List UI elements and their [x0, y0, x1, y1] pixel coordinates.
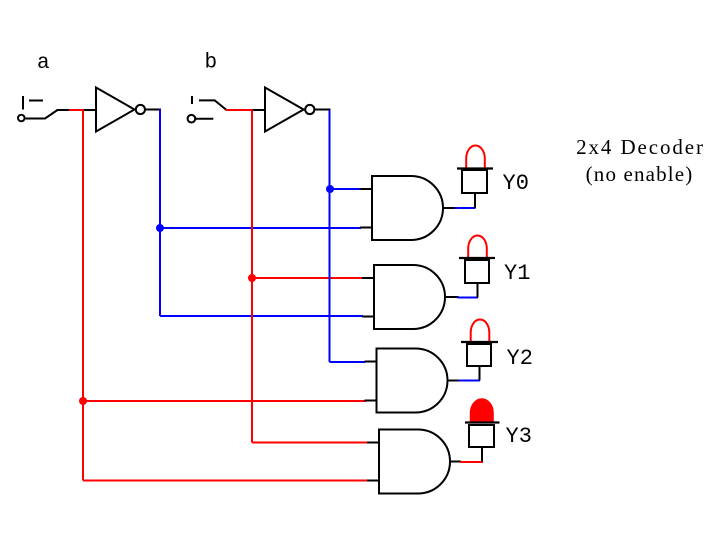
wire net-nota to AND1 lower input [160, 315, 363, 317]
svg-text:Y0: Y0 [503, 171, 529, 196]
svg-text:(no enable): (no enable) [586, 162, 694, 186]
svg-text:b: b [205, 52, 218, 75]
wire net-b to AND1 upper input [252, 277, 363, 279]
wire net-notb to AND2 upper input [330, 361, 366, 363]
svg-text:2x4 Decoder: 2x4 Decoder [576, 135, 705, 159]
svg-text:Y3: Y3 [506, 424, 532, 449]
wire net-a vertical (red, x=83) [82, 109, 84, 481]
LED Y2 [461, 320, 498, 381]
node net-b junction dot [248, 274, 256, 282]
inverter U2 (b) [265, 88, 331, 132]
svg-text:Y2: Y2 [507, 346, 533, 371]
node net-notb junction dot [326, 185, 334, 193]
wire net-a to AND3 lower input [83, 480, 369, 482]
AND gate G0 [372, 176, 443, 240]
switch SWa [18, 96, 58, 121]
wire net-b to AND3 upper input [252, 442, 368, 444]
svg-text:Y1: Y1 [504, 261, 530, 286]
node net-a junction dot [79, 397, 87, 405]
AND gate G1 [374, 265, 445, 329]
switch SWb [188, 96, 227, 122]
node net-nota junction dot [156, 224, 164, 232]
wire switch-b to inverter U2 input [253, 109, 266, 111]
wire net-notb to AND0 upper input [330, 188, 361, 190]
wire AND0 output [443, 207, 456, 209]
wire net-b red segment [226, 109, 253, 111]
wire net-a to AND2 lower input [83, 400, 366, 402]
LED Y3 (lit) [465, 399, 500, 461]
wire AND3 output [450, 461, 461, 463]
wire switch-a to inverter U1 input [57, 109, 97, 111]
wire net-nota vertical (blue, x=160) [159, 109, 161, 316]
svg-text:a: a [37, 52, 50, 75]
LED Y1 [459, 236, 495, 298]
wire net-b vertical (red, x=252) [251, 110, 253, 443]
wire net-nota to AND0 lower input [160, 227, 361, 229]
wire AND1 output [445, 296, 459, 298]
wire AND2 output [448, 380, 460, 382]
AND gate G3 [379, 430, 450, 494]
LED Y0 [457, 146, 493, 208]
wire net-a red segment [69, 109, 84, 111]
AND gate G2 [377, 349, 448, 413]
wire net-notb vertical (blue, x=329.5) [329, 110, 331, 362]
inverter U1 (a) [96, 88, 161, 132]
